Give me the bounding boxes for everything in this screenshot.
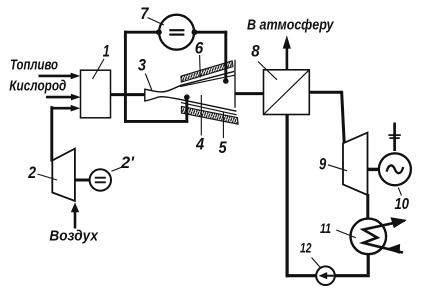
svg-text:9: 9 xyxy=(319,154,327,173)
svg-text:3: 3 xyxy=(138,56,146,75)
svg-text:2: 2 xyxy=(27,163,36,182)
svg-text:11: 11 xyxy=(320,220,331,236)
svg-text:10: 10 xyxy=(395,196,410,213)
svg-text:Воздух: Воздух xyxy=(49,229,98,245)
svg-text:В атмосферу: В атмосферу xyxy=(247,17,334,34)
svg-text:5: 5 xyxy=(219,138,227,157)
svg-text:Кислород: Кислород xyxy=(9,77,66,94)
svg-text:1: 1 xyxy=(103,42,110,61)
svg-text:Топливо: Топливо xyxy=(10,57,58,74)
svg-text:2': 2' xyxy=(120,153,135,172)
svg-text:4: 4 xyxy=(195,135,205,154)
svg-text:7: 7 xyxy=(140,4,150,23)
svg-text:8: 8 xyxy=(251,42,260,61)
svg-text:12: 12 xyxy=(300,240,312,256)
svg-text:6: 6 xyxy=(195,39,204,58)
